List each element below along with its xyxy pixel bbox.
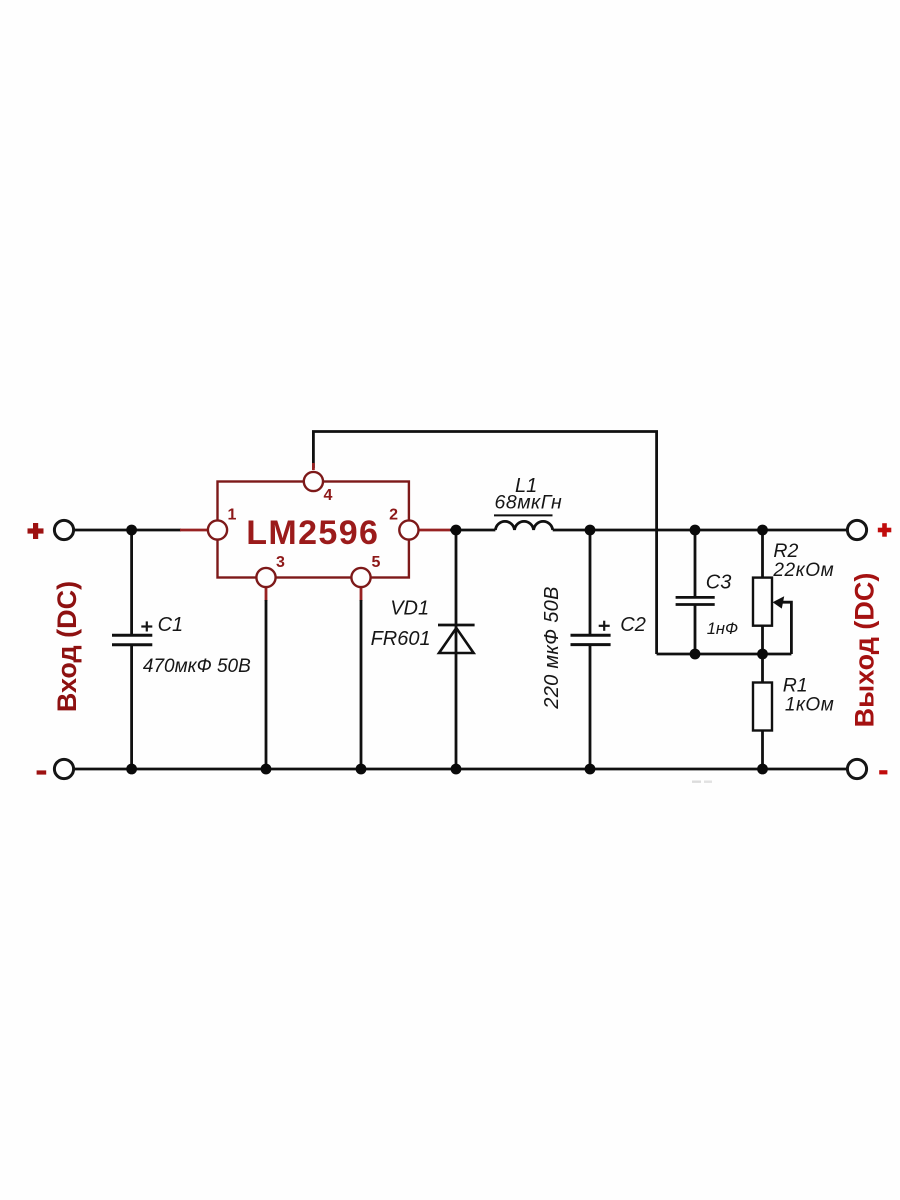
svg-text:4: 4	[324, 487, 333, 504]
svg-text:470мкФ 50В: 470мкФ 50В	[143, 656, 251, 677]
svg-text:68мкГн: 68мкГн	[495, 491, 563, 513]
svg-text:VD1: VD1	[390, 597, 429, 619]
svg-text:LM2596: LM2596	[246, 514, 379, 552]
svg-text:2: 2	[389, 507, 398, 524]
svg-text:R1: R1	[783, 675, 808, 697]
svg-text:22кОм: 22кОм	[772, 560, 834, 581]
svg-text:1кОм: 1кОм	[785, 695, 834, 716]
svg-text:Вход (DC): Вход (DC)	[52, 581, 82, 712]
svg-text:1: 1	[227, 507, 236, 524]
svg-text:1нФ: 1нФ	[707, 620, 738, 638]
svg-text:5: 5	[372, 554, 381, 571]
svg-text:R2: R2	[773, 540, 798, 562]
svg-text:Выход (DC): Выход (DC)	[850, 573, 880, 728]
svg-text:C1: C1	[158, 614, 184, 636]
svg-text:C2: C2	[620, 614, 646, 636]
svg-text:220 мкФ 50В: 220 мкФ 50В	[541, 586, 563, 709]
svg-text:C3: C3	[706, 571, 732, 593]
svg-text:FR601: FR601	[371, 628, 431, 650]
svg-text:3: 3	[276, 554, 285, 571]
